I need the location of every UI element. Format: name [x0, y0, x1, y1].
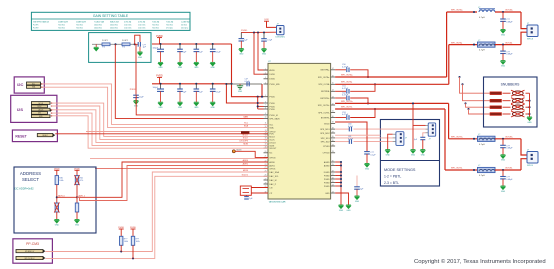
svg-text:75k Ohm: 75k Ohm [76, 25, 83, 27]
wire SPK_OUTA- [449, 44, 477, 46]
junction gnd bus [340, 185, 342, 187]
junction bootstrap [367, 102, 369, 104]
pin U1.PGND (bottom-right) [331, 175, 336, 177]
ground (mode cap) [420, 150, 425, 153]
connector J-SPKB [527, 152, 538, 164]
junction snub2 [528, 100, 530, 102]
svg-text:23: 23 [332, 191, 334, 193]
svg-text:PVDD: PVDD [269, 103, 275, 105]
svg-text:GND: GND [158, 67, 163, 69]
svg-text:SPK_OUTA-: SPK_OUTA- [451, 41, 463, 44]
svg-text:20: 20 [265, 151, 267, 153]
wire GPIO row a [86, 131, 268, 133]
wire vertical OUTA- riser [448, 45, 450, 85]
svg-text:0.1μF: 0.1μF [216, 91, 222, 93]
RESET interface box [12, 130, 57, 142]
pin U1.SDA (left) [264, 127, 269, 129]
ground (OUT2A+) [501, 30, 506, 33]
I2C interface box [14, 77, 44, 93]
svg-text:75k Ohm: 75k Ohm [152, 28, 159, 30]
svg-text:BSTRPA-: BSTRPA- [321, 90, 330, 93]
svg-text:PGND: PGND [324, 186, 330, 188]
wire I2S signal 2 [51, 106, 268, 139]
address select box [14, 167, 96, 233]
wire I2S signal 1 [51, 103, 268, 136]
pin U1.SPK_OUTA+ (right) [331, 76, 336, 78]
wire vertical OUTB- riser [444, 109, 446, 170]
junction gnd bus [340, 174, 342, 176]
pin U1.SPK_OUTB+ (right) [331, 104, 336, 106]
wire snub3 [503, 106, 511, 108]
svg-text:SPK_OUTB+: SPK_OUTB+ [451, 137, 464, 139]
svg-text:GND: GND [194, 107, 199, 109]
svg-text:GSE SPKR GAIN (V): GSE SPKR GAIN (V) [33, 20, 49, 23]
wire DVDD rail [241, 31, 277, 33]
wire I2S signal 4 [51, 113, 268, 145]
wire NC to U1 [235, 151, 268, 157]
svg-text:28: 28 [332, 170, 334, 172]
junction DVDD b [257, 32, 259, 34]
pin U1.LRCLK (left) [264, 141, 269, 143]
wire PVDD bus vertical [257, 97, 259, 109]
svg-text:SDOUT: SDOUT [269, 148, 277, 150]
svg-text:100k: 100k [59, 180, 63, 182]
pin U1.MCLK (left) [264, 135, 269, 137]
junction PVDD rail bank1 cap1 [159, 43, 161, 45]
wire PDN from RESET [55, 133, 268, 135]
svg-text:SPK_OUTA-: SPK_OUTA- [341, 81, 353, 84]
svg-text:GND: GND [501, 191, 506, 193]
svg-text:4.7Bu 8Ω: 4.7Bu 8Ω [124, 21, 132, 23]
svg-text:PP-CM3: PP-CM3 [26, 242, 39, 246]
svg-text:976: 976 [122, 47, 125, 49]
PP-CM3 box [13, 239, 53, 263]
wire SPK_OUTA- [335, 83, 449, 85]
junction OUT2B+ [502, 138, 504, 140]
svg-text:GND: GND [239, 53, 244, 55]
pin U1.GPIO2 (left) [264, 131, 269, 133]
connector J-SPKA [527, 25, 538, 37]
resistor R40 (upper) [55, 176, 58, 185]
wire pin stub to gnd bus [335, 165, 341, 167]
svg-text:1.5k Ohm: 1.5k Ohm [138, 28, 146, 30]
wire snubber common [529, 93, 531, 117]
svg-text:75k Ohm: 75k Ohm [58, 28, 65, 30]
junction PVDD rail bank2 cap1 [159, 83, 161, 85]
svg-text:SPK A: SPK A [527, 38, 533, 41]
wire to SPK B connector (top) [521, 139, 527, 155]
svg-text:MCLK: MCLK [269, 136, 275, 138]
wire to SPK B connector (bottom) [521, 159, 527, 170]
capacitor C51 0.47uF (bootstrap) [335, 90, 346, 92]
svg-text:GND: GND [158, 107, 163, 109]
resistor R-GP2 [122, 43, 130, 46]
svg-text:SDIN: SDIN [243, 144, 248, 146]
capacitor C-OUT2B+ 0.68uF [502, 139, 504, 146]
svg-text:OUT2A-: OUT2A- [505, 41, 513, 44]
svg-text:45: 45 [332, 83, 334, 85]
junction gnd bus [340, 171, 342, 173]
snubbers box [484, 77, 538, 127]
pin U1.SPK_MD2 (right) [331, 132, 336, 134]
wire I2S signal 5 [51, 116, 268, 148]
gain setting table [31, 12, 190, 30]
pin U1.PGND (bottom-right) [331, 185, 336, 187]
svg-text:PVDD: PVDD [269, 109, 275, 111]
wire snubber tap 1 [458, 76, 460, 78]
svg-text:GND: GND [211, 107, 216, 109]
svg-text:PLOP2: PLOP2 [33, 28, 39, 30]
wire DAC CN [251, 187, 268, 189]
wire mode2 pin3 to cap [423, 133, 426, 138]
svg-text:46: 46 [332, 75, 334, 77]
svg-text:10: 10 [265, 117, 267, 119]
svg-text:DAC_SDA: DAC_SDA [269, 171, 279, 174]
header J-mode1 [396, 132, 404, 146]
svg-text:0.1μF: 0.1μF [348, 126, 354, 128]
svg-text:27: 27 [265, 178, 267, 180]
capacitor C 1μF (bank1) [179, 44, 181, 49]
svg-text:SPK_OUTA-: SPK_OUTA- [318, 83, 330, 86]
pin U1.SDOUT (left) [264, 147, 269, 149]
pin U1.DVDD (left) [264, 73, 269, 75]
svg-text:SPK_MD2: SPK_MD2 [320, 133, 330, 135]
ground (OUT2B+) [501, 155, 506, 158]
mode settings box [380, 120, 439, 187]
svg-text:GND: GND [211, 67, 216, 69]
capacitor C50 0.47uF (bootstrap) [335, 69, 346, 71]
svg-text:100k Ohm: 100k Ohm [94, 28, 102, 30]
wire PVDD rail bank2 [152, 83, 232, 85]
wire snub4 out [526, 113, 530, 115]
svg-text:0.1μF: 0.1μF [216, 52, 222, 54]
header J-DVDD select [277, 26, 285, 35]
pin U1.SPK_OUTA- (right) [331, 83, 336, 85]
capacitor C 100μF (bank1) [160, 44, 162, 49]
wire snub3 out [526, 106, 530, 108]
junction bootstrap [367, 76, 369, 78]
junction SPK_OUTA- / inductor [473, 44, 475, 46]
junction gnd bus [340, 164, 342, 166]
junction PVDD rail bank1 cap2 [179, 43, 181, 45]
svg-text:PVDD: PVDD [130, 89, 136, 91]
wire pin stub to gnd bus [335, 161, 341, 163]
wire SPK_OUTB+ [449, 138, 477, 140]
wire snubber tap 3 [464, 102, 466, 104]
junction PVDD row 106.4 [257, 105, 259, 107]
pin U1.CPVDD (right) [331, 152, 336, 154]
svg-text:30: 30 [332, 160, 334, 162]
wire resistor to ADR node (adr1) [56, 185, 58, 203]
svg-text:27.5 Ωkz: 27.5 Ωkz [166, 28, 173, 30]
wire resistor to ground (adr2) [76, 212, 78, 220]
svg-text:0.47μF: 0.47μF [342, 88, 349, 90]
svg-text:8dBuV 2Ω8: 8dBuV 2Ω8 [110, 21, 119, 23]
ground (mode riser) [411, 150, 416, 153]
svg-text:38: 38 [332, 127, 334, 129]
pin U1.AVDD (left) [264, 69, 269, 71]
capacitor C-GP 1uF [138, 42, 140, 47]
svg-text:ADR0: ADR0 [269, 161, 275, 164]
svg-text:I2S: I2S [17, 107, 23, 112]
wire GPIO row b [90, 158, 268, 160]
capacitor C53 0.47uF (bootstrap) [335, 117, 346, 119]
svg-text:100k: 100k [124, 241, 128, 243]
svg-text:GND: GND [262, 54, 267, 56]
svg-text:SDA: SDA [269, 127, 274, 130]
svg-text:34: 34 [332, 144, 334, 146]
node ADR1 junction [76, 196, 78, 198]
svg-text:SPK_OUTB-: SPK_OUTB- [451, 168, 463, 170]
capacitor C-DVDDM 0.1uF [247, 82, 249, 87]
wire pin stub to gnd bus [335, 171, 341, 173]
svg-text:SDIN: SDIN [269, 145, 274, 147]
resistor R-snub1 [490, 92, 502, 95]
junction SPK_OUTA+ / inductor [473, 11, 475, 13]
wire PVDD pin stub 106.4 [258, 105, 264, 107]
capacitor C-snub4 (DNP X) [511, 111, 525, 117]
junction I2S exit 3 [51, 109, 53, 111]
svg-text:4.7μH: 4.7μH [479, 175, 485, 177]
junction PVDD rail bank2 cap2 [179, 83, 181, 85]
pin U1.PVDD_M (left) [264, 114, 269, 116]
svg-text:0.1μF: 0.1μF [245, 81, 251, 83]
pin U1.NC (left) [264, 152, 269, 154]
I2S interface box [11, 95, 57, 122]
wire PVDD bank1 to U1 PVDD_MID [232, 44, 264, 97]
wire snub1 [503, 92, 511, 94]
svg-text:GND: GND [411, 154, 416, 156]
junction DVDD a [253, 32, 255, 34]
pin U1.PVDD (left) [264, 108, 269, 110]
pin U1.DGND (bottom-right) [331, 171, 336, 173]
resistor R-GP1 [102, 43, 110, 46]
pin U1.BSTRPB+ (right) [331, 97, 336, 99]
svg-text:GND: GND [178, 67, 183, 69]
svg-text:0.47μF: 0.47μF [342, 67, 349, 69]
svg-text:29: 29 [332, 164, 334, 166]
svg-text:GND: GND [527, 122, 532, 124]
svg-text:SPK_OUTA+: SPK_OUTA+ [318, 76, 331, 79]
svg-text:0.47μF: 0.47μF [342, 114, 349, 116]
svg-text:SPK_OUTB+: SPK_OUTB+ [318, 105, 331, 107]
svg-text:GND: GND [178, 107, 183, 109]
svg-text:Copyright © 2017, Texas Instru: Copyright © 2017, Texas Instruments Inco… [414, 258, 546, 265]
svg-text:SELECT: SELECT [22, 177, 39, 182]
svg-text:0.1μF: 0.1μF [370, 155, 376, 157]
capacitor C-snub2 (DNP X) [511, 98, 525, 104]
wire GND pin [335, 193, 348, 205]
capacitor C-PGND [356, 176, 358, 187]
pin U1.AGND (bottom-right) [331, 165, 336, 167]
svg-text:1.5k Ohm: 1.5k Ohm [124, 28, 132, 30]
junction OUT2A+ [502, 11, 504, 13]
wire SPK_OUTB+ [335, 102, 449, 104]
junction bootstrap [374, 83, 376, 85]
wire SPI_B to U1 [45, 176, 268, 258]
pin U1.DAC_P (left) [264, 183, 269, 185]
wire PVDD rail bank1 [152, 43, 232, 45]
svg-text:SDA: SDA [244, 125, 249, 128]
svg-text:DGND: DGND [324, 172, 330, 174]
pin U1.PVDD (left) [264, 102, 269, 104]
svg-text:7.5Bu 8Ω: 7.5Bu 8Ω [166, 21, 174, 23]
svg-text:PGND: PGND [324, 182, 330, 184]
ground (bulk cap) [134, 101, 139, 104]
svg-text:PGND: PGND [324, 179, 330, 181]
wire DVDD_MID row to PVDD rows riser [261, 84, 263, 97]
junction I2S exit 5 [51, 115, 53, 117]
svg-text:LRCK/FS: LRCK/FS [240, 141, 249, 143]
svg-text:1.2dBV 8Ω: 1.2dBV 8Ω [181, 21, 190, 23]
pin U1.PVDD_MID (left) [264, 83, 269, 85]
wire vertical OUTA+ riser [446, 12, 448, 77]
svg-text:RESET: RESET [15, 134, 27, 138]
junction PVDD row 96.7 [257, 96, 259, 98]
wire bootstrap [350, 70, 368, 77]
wire snubber tap 4 [467, 108, 469, 110]
junction DVDD c [263, 31, 265, 33]
junction bank1 riser / bank2 rail [230, 83, 232, 85]
junction gnd bus [340, 181, 342, 183]
svg-text:GND: GND [386, 154, 391, 156]
svg-text:39: 39 [332, 122, 334, 124]
svg-text:41: 41 [332, 111, 334, 113]
svg-text:GND: GND [501, 65, 506, 67]
pin U1.ADR0 (left) [264, 161, 269, 163]
wire bootstrap [350, 98, 368, 103]
pin U1.BSTRPA+ (right) [331, 69, 336, 71]
svg-text:75k Ohm: 75k Ohm [166, 25, 173, 27]
svg-text:RESET: RESET [42, 135, 47, 137]
svg-text:SPK_OUTA+: SPK_OUTA+ [341, 73, 354, 76]
wire pullup to bus [132, 245, 134, 258]
svg-text:SNUBBERS: SNUBBERS [501, 83, 520, 87]
junction gnd bus [340, 161, 342, 163]
wire pullup to bus [120, 245, 122, 251]
svg-text:24: 24 [332, 184, 334, 186]
ground (GVDD cap) [365, 164, 370, 167]
svg-text:0.68μF: 0.68μF [506, 21, 513, 23]
pin U1.PVDD (left) [264, 96, 269, 98]
svg-text:37: 37 [332, 131, 334, 133]
svg-text:4.7μH: 4.7μH [479, 144, 485, 146]
svg-text:AGND: AGND [324, 164, 330, 167]
svg-text:0.1μF: 0.1μF [267, 40, 273, 42]
pin U1.SCL (left) [264, 123, 269, 125]
wire GVDD to cap [335, 122, 367, 152]
wire ADR0 to U1 [57, 162, 268, 197]
wire SPK_MD1 to mode header [354, 128, 426, 130]
svg-text:4.7μH: 4.7μH [479, 17, 485, 19]
wire SPK_OUTA+ [335, 76, 447, 78]
svg-text:GND: GND [194, 67, 199, 69]
connector PP-CM3 pin2 [16, 256, 43, 259]
svg-text:25: 25 [332, 181, 334, 183]
svg-text:BSTRPA+: BSTRPA+ [321, 69, 331, 72]
capacitor C-snub3 (DNP X) [511, 104, 525, 110]
wire mode1 pin1 to ground [388, 134, 393, 149]
connector I2C header [27, 82, 41, 85]
svg-text:TAS5805MDCAR: TAS5805MDCAR [269, 200, 286, 203]
junction bootstrap [374, 108, 376, 110]
pin U1.DAC_M (left) [264, 179, 269, 181]
svg-text:I2C ADDR=0x92: I2C ADDR=0x92 [15, 187, 35, 191]
wire DVDD to pullup resistor [132, 229, 134, 236]
svg-text:MCLK: MCLK [242, 135, 248, 137]
svg-text:SPK_OUTB+: SPK_OUTB+ [341, 101, 354, 103]
svg-text:SPK_SD2: SPK_SD2 [321, 142, 331, 144]
wire snub1 out [526, 92, 530, 94]
svg-text:AVDD: AVDD [269, 69, 275, 72]
pin U1.DVDD (left) [264, 78, 269, 80]
pin U1.ADR1 (left) [264, 165, 269, 167]
pin U1.AGND (bottom-right) [331, 161, 336, 163]
ground (GND pin) [346, 205, 351, 208]
svg-text:100k: 100k [136, 241, 140, 243]
wire pin stub to gnd bus [335, 185, 341, 187]
pin U1.CN (left) [264, 187, 269, 189]
svg-text:GND: GND [501, 34, 506, 36]
svg-text:I2C: I2C [17, 82, 23, 87]
ground (snubbers) [527, 117, 532, 120]
wire resistor to ground (adr1) [56, 212, 58, 220]
pin U1.SPK_SD2 (right) [331, 141, 336, 143]
svg-text:200k Ohm: 200k Ohm [110, 25, 118, 27]
svg-text:GND: GND [421, 154, 426, 156]
svg-text:100μF: 100μF [152, 47, 158, 49]
svg-text:4.7Bu 8Ω: 4.7Bu 8Ω [138, 21, 146, 23]
junction snub3 [528, 106, 530, 108]
junction OUT2A- [502, 44, 504, 46]
net label PDN (inverted) [241, 131, 249, 133]
ground (OUT2B-) [501, 186, 506, 189]
wire SCL from I2C [41, 84, 268, 125]
junction (gain tap 2) [134, 43, 136, 45]
wire OUT2A+ [495, 11, 521, 13]
svg-text:7.5dBuV 2Ω8: 7.5dBuV 2Ω8 [94, 21, 104, 23]
svg-text:20.5 Ω kz: 20.5 Ω kz [181, 28, 188, 30]
capacitor C 0.1μF (bank2) [212, 84, 214, 89]
svg-text:GND: GND [138, 57, 143, 59]
svg-text:PVDD_M: PVDD_M [269, 115, 278, 117]
svg-text:75k Ohm: 75k Ohm [58, 25, 65, 27]
wire DAC CP [251, 192, 268, 194]
capacitor C 1μF (bank2) [179, 84, 181, 89]
capacitor C 0.1μF (bank1) [212, 44, 214, 49]
wire pin stub to gnd bus [335, 178, 341, 180]
pin U1.CP (left) [264, 192, 269, 194]
component DAC output (red box) [240, 186, 251, 195]
svg-text:LRCLK: LRCLK [269, 142, 276, 144]
svg-text:1.5k Ohm: 1.5k Ohm [138, 25, 146, 27]
wire DVDD to U1 AVDD [258, 33, 268, 70]
svg-text:GND: GND [55, 224, 60, 226]
junction SPK_OUTB+ / inductor [473, 138, 475, 140]
svg-text:OUT2A+: OUT2A+ [505, 9, 514, 12]
junction I2S exit 1 [51, 102, 53, 104]
capacitor C 100μF (bank2) [160, 84, 162, 89]
svg-text:100k Ohm: 100k Ohm [94, 25, 102, 27]
inductor L? 4.7uH [478, 42, 496, 47]
svg-text:DVDD: DVDD [241, 30, 248, 32]
capacitor C61 0.1uF (series, SPK_SD2) [335, 141, 349, 143]
pin U1.DAC_SDA (left) [264, 171, 269, 173]
ground (OUT2A-) [501, 61, 506, 64]
svg-text:SPK_MD1: SPK_MD1 [320, 129, 330, 131]
wire SPK_SD1 to mode header [335, 137, 393, 139]
wire PVDD_MID row [226, 84, 263, 103]
